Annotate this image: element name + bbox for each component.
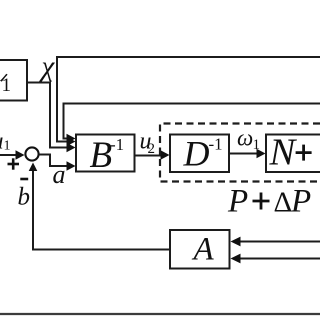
svg-text:-1: -1 [209, 135, 223, 154]
svg-text:D: D [183, 134, 210, 174]
top feedback line 1 [57, 57, 320, 142]
svg-text:χ: χ [39, 51, 56, 83]
svg-text:P: P [290, 184, 311, 220]
svg-text:2: 2 [148, 141, 156, 157]
svg-text:ω: ω [237, 126, 253, 151]
svg-text:Δ: Δ [274, 187, 293, 219]
wire chi from F1 to B-1 [27, 83, 68, 148]
wire into A top [240, 241, 320, 243]
svg-text:P: P [227, 184, 248, 220]
svg-text:a: a [53, 160, 66, 189]
svg-text:1: 1 [4, 139, 11, 154]
input u1 wire [0, 154, 17, 156]
dashed box P [160, 124, 320, 182]
feedback wire from A to junction [33, 170, 170, 250]
block B inverse [76, 135, 135, 172]
block F1 [0, 60, 27, 101]
svg-text:N: N [269, 132, 298, 174]
svg-text:b: b [18, 184, 31, 211]
wire u2 [135, 155, 163, 157]
wire omega to N [229, 153, 258, 155]
svg-text:-1: -1 [110, 135, 124, 154]
wire junction to B-1 [39, 155, 68, 167]
plus sign [8, 163, 20, 166]
svg-text:A: A [192, 232, 215, 268]
top feedback line 2 [64, 104, 320, 139]
svg-text:1: 1 [2, 75, 12, 96]
minus sign [20, 178, 28, 181]
wire into A bottom [240, 258, 320, 260]
summing junction [25, 147, 38, 160]
bottom rule [0, 313, 320, 315]
svg-text:B: B [90, 135, 113, 176]
block A [170, 230, 230, 269]
block D inverse [170, 135, 229, 173]
block N plus [266, 135, 320, 173]
